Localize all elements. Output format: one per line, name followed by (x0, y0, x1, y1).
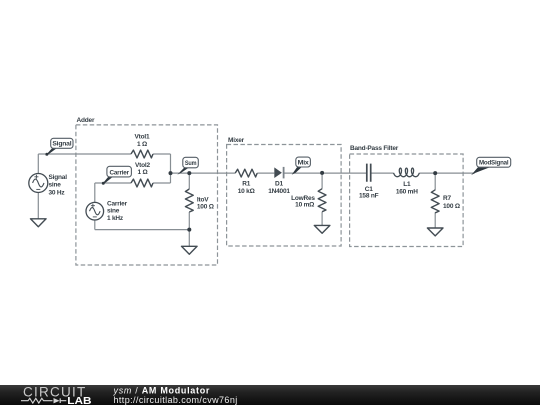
svg-text:Carrier: Carrier (107, 201, 128, 208)
svg-text:10 kΩ: 10 kΩ (238, 188, 255, 195)
svg-text:158 nF: 158 nF (359, 192, 379, 199)
svg-text:R1: R1 (242, 181, 250, 188)
svg-text:160 mH: 160 mH (396, 189, 418, 196)
svg-text:ItoV: ItoV (197, 196, 209, 203)
svg-text:Mix: Mix (298, 159, 310, 166)
svg-text:Band-Pass Filter: Band-Pass Filter (350, 145, 399, 152)
svg-text:sine: sine (107, 208, 120, 215)
svg-text:Signal: Signal (52, 141, 71, 148)
svg-text:LAB: LAB (67, 395, 92, 405)
svg-text:30 Hz: 30 Hz (49, 189, 66, 196)
svg-text:1 Ω: 1 Ω (137, 169, 147, 176)
svg-text:1N4001: 1N4001 (268, 188, 290, 195)
svg-text:http://circuitlab.com/cvw76nj: http://circuitlab.com/cvw76nj (114, 395, 238, 405)
svg-text:1 Ω: 1 Ω (137, 141, 147, 148)
svg-text:Vtol1: Vtol1 (135, 134, 150, 141)
svg-text:D1: D1 (275, 181, 283, 188)
svg-text:Carrier: Carrier (109, 169, 129, 176)
svg-text:R7: R7 (443, 195, 451, 202)
svg-text:Adder: Adder (77, 117, 95, 124)
svg-text:ModSignal: ModSignal (479, 160, 509, 167)
svg-text:1 kHz: 1 kHz (107, 215, 124, 222)
svg-text:Signal: Signal (49, 174, 68, 181)
svg-text:L1: L1 (403, 181, 411, 188)
svg-text:Vtol2: Vtol2 (135, 162, 150, 169)
svg-text:Mixer: Mixer (228, 137, 245, 144)
svg-text:10 mΩ: 10 mΩ (295, 202, 314, 209)
svg-text:100 Ω: 100 Ω (443, 203, 460, 210)
svg-text:Sum: Sum (185, 160, 197, 167)
svg-text:100 Ω: 100 Ω (197, 204, 214, 211)
svg-text:sine: sine (49, 182, 62, 189)
